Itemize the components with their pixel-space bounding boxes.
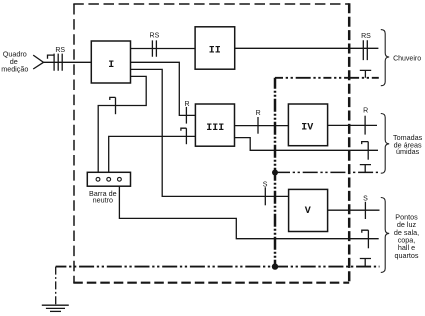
breaker box II — [195, 27, 235, 69]
wire: II to chuveiro — [235, 47, 379, 49]
PE earth trunk vertical — [274, 78, 277, 267]
svg-text:quartos: quartos — [395, 251, 419, 260]
svg-text:RS: RS — [150, 33, 160, 40]
brace tomadas — [381, 114, 389, 174]
wire: service entrance feeder — [44, 61, 92, 63]
conductor marks RS between I and II — [152, 40, 156, 56]
distribution box III — [195, 104, 234, 146]
svg-text:úmidas: úmidas — [396, 147, 420, 156]
wire: I to III (phase R) — [131, 62, 196, 115]
junction dot tomadas PE — [272, 170, 278, 176]
svg-text:S: S — [263, 182, 268, 189]
svg-text:RS: RS — [55, 47, 65, 54]
neutral hook mark before III — [181, 128, 187, 131]
svg-text:IV: IV — [301, 123, 313, 134]
PE earth trunk horizontal — [56, 266, 380, 268]
svg-text:V: V — [305, 206, 311, 217]
dashed enclosure top border — [73, 3, 349, 5]
conductor mark R before III — [185, 107, 187, 124]
conduit hook on feeder — [48, 55, 55, 59]
brace pontos de luz — [381, 198, 389, 273]
conductor mark S on pontos circuit — [364, 202, 366, 219]
PE drop to ground electrode — [55, 267, 57, 305]
barra de neutro terminal block — [87, 172, 130, 186]
svg-text:RS: RS — [361, 33, 371, 40]
svg-text:R: R — [363, 107, 368, 114]
svg-text:R: R — [256, 110, 261, 117]
PE branch to tomadas — [275, 171, 378, 173]
svg-text:R: R — [184, 101, 189, 108]
node: Quadro de medição label — [1, 50, 28, 74]
wire: V to pontos de luz (phase S) — [328, 209, 380, 211]
wire: III to IV (phase R) — [235, 125, 289, 127]
conductor marks RS on chuveiro circuit — [363, 40, 367, 60]
earth terminal chuveiro — [360, 70, 371, 77]
conductor mark R on tomadas circuit — [364, 116, 366, 135]
earth terminal pontos — [360, 259, 371, 267]
earth terminal tomadas — [360, 165, 371, 173]
dashed enclosure left border — [73, 4, 75, 283]
svg-text:S: S — [363, 195, 368, 202]
wire: I to V (phase S) — [131, 69, 289, 196]
neutral hook mark near I — [110, 97, 116, 100]
junction dot pontos PE — [272, 263, 278, 269]
neutral conductor mark before III — [185, 128, 187, 144]
dashed enclosure bottom border — [73, 282, 349, 284]
svg-text:neutro: neutro — [93, 196, 113, 205]
brace chuveiro — [381, 30, 389, 86]
wire: I neutral to barra de neutro — [98, 76, 146, 177]
wire: IV to tomadas (phase R) — [328, 124, 377, 126]
label Pontos de luz — [394, 213, 419, 260]
neutral hook mark on tomadas circuit — [362, 142, 369, 145]
dashed enclosure right border — [348, 3, 351, 283]
conductor mark S before V — [264, 187, 266, 205]
neutral conductor mark on tomadas circuit — [367, 142, 369, 160]
svg-text:I: I — [108, 60, 114, 71]
wire: barra de neutro to III (neutral) — [109, 136, 196, 177]
neutral hook mark on pontos circuit — [362, 230, 369, 233]
neutral conductor mark near I — [115, 97, 117, 114]
svg-text:medição: medição — [1, 65, 28, 74]
ground electrode symbol — [42, 305, 69, 311]
box IV — [288, 104, 327, 146]
feeder arrow from quadro — [33, 55, 43, 69]
PE branch to chuveiro — [275, 77, 379, 79]
svg-text:Chuveiro: Chuveiro — [393, 55, 421, 62]
svg-text:II: II — [209, 45, 221, 56]
label Tomadas de áreas úmidas — [393, 133, 423, 156]
barra de neutro label — [89, 189, 117, 205]
conductor marks RS+N on feeder — [54, 54, 62, 71]
box V — [289, 189, 328, 231]
svg-text:III: III — [206, 123, 224, 134]
wire: III neutral to tomadas — [235, 138, 379, 151]
neutral conductor mark on pontos circuit — [367, 230, 369, 248]
conductor mark R between III and IV — [257, 117, 259, 134]
breaker box I — [91, 41, 130, 83]
wire: barra de neutro to pontos de luz (neutral) — [119, 181, 378, 239]
wire: I to II — [131, 48, 196, 50]
